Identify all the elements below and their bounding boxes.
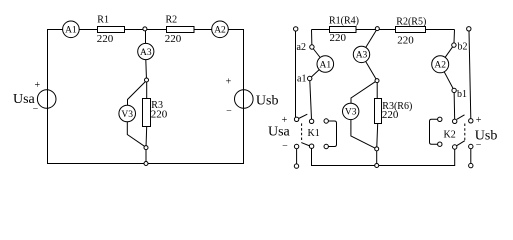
wire A2 to b1 slant [440,64,454,90]
ammeter A2 [212,21,229,38]
switch K1 jack bottom middle [309,144,313,148]
svg-text:220: 220 [151,109,168,121]
source Usb circle [235,90,254,109]
svg-text:A1: A1 [319,60,331,70]
switch K1 jack top middle [309,119,313,123]
switch K2 jack plus [469,119,473,123]
switch K1 blade top [299,114,308,118]
svg-text:−: − [33,104,39,115]
wire Usa plus feed [295,31,297,117]
node on bottom wire [144,162,148,166]
svg-text:V3: V3 [121,110,133,120]
resistor R1(R4) [330,27,357,33]
svg-text:A1: A1 [65,26,77,36]
svg-text:R2(R5): R2(R5) [396,16,426,27]
node V3-R3 join [144,146,148,150]
svg-text:A2: A2 [434,61,446,71]
node under A3 right [375,79,379,83]
resistor R3(R6) [375,99,382,124]
wire left circuit outer loop [48,30,244,164]
wire a1 down to K1 [310,79,312,122]
resistor R3 [143,99,151,127]
svg-text:220: 220 [330,32,347,44]
wire Usb minus stub [470,149,472,164]
terminal Usb minus bottom [469,163,473,167]
jack a1 [308,76,312,80]
svg-text:+: + [226,76,232,87]
wire node to V3 slant [128,81,147,106]
svg-text:Usa: Usa [268,124,291,139]
node bottom wire right [375,164,379,168]
ammeter A2 right [432,56,449,73]
node on top wire [375,27,379,31]
wire R3R6 to node [377,123,378,148]
svg-text:+: + [476,115,482,126]
svg-text:V3: V3 [345,108,357,118]
switch K2 jack bottom left [438,142,442,146]
source Usa circle [37,90,56,109]
wire node to A3 slant [362,29,378,55]
ammeter A3 right [353,46,369,62]
wire a2 to A1 slant [312,47,325,64]
svg-text:220: 220 [165,33,182,45]
svg-text:A2: A2 [214,26,226,36]
svg-text:Usb: Usb [256,94,279,109]
jack a2 [310,45,314,49]
wire V3 to node slant [351,120,377,149]
svg-text:220: 220 [97,33,114,45]
svg-text:R1(R4): R1(R4) [329,15,359,26]
ammeter A1 right [317,56,334,73]
node under A3 [145,78,149,82]
svg-text:220: 220 [397,34,414,46]
wire R3 bottom to node [145,126,148,147]
wire node to bottom [376,149,378,166]
ammeter A1 [63,21,80,38]
wire node to bottom wire [145,148,147,164]
wire A3 to node slant [362,54,378,80]
wire node to V3 slant [351,81,377,105]
switch K1 jack plus [294,117,298,121]
svg-text:a1: a1 [297,74,306,85]
node junction R1-R2 [143,27,147,31]
svg-text:R1: R1 [97,14,109,25]
switch K2 blade bottom [457,141,465,146]
jack b1 [452,88,456,92]
wire corner to jack a2 [311,30,313,48]
ammeter A3 [138,43,154,59]
wire b1 down to K2 [453,90,456,121]
wire node to R3R6 [376,81,378,99]
switch K1 jack bottom right [324,144,328,148]
svg-text:+: + [34,80,40,91]
switch K2 jack top middle [453,119,457,123]
svg-text:a2: a2 [297,42,306,53]
svg-text:K1: K1 [308,128,320,139]
jack b2 [452,43,456,47]
svg-text:K2: K2 [444,130,456,141]
svg-text:b1: b1 [457,89,467,100]
switch K1 jack minus [294,144,298,148]
svg-text:−: − [476,140,482,151]
wire Usb plus feed [469,31,471,119]
wire A3 to node [145,60,148,81]
svg-text:R2: R2 [166,14,178,25]
terminal Usb plus top [467,27,471,31]
wire corner to jack b2 [453,30,456,46]
resistor R2(R5) [396,27,426,33]
node V3-R3 join right [375,147,379,151]
svg-text:−: − [226,106,232,117]
switch K1 jack top right [324,119,328,123]
wire right circuit top [312,29,455,31]
terminal Usa minus bottom [294,164,298,168]
switch K2 short bracket [430,119,438,144]
wire Usa minus stub [296,149,298,164]
svg-text:A3: A3 [140,48,152,58]
resistor R2 [167,27,195,33]
switch K2 jack bottom middle [453,145,457,149]
svg-text:+: + [282,115,288,126]
wire A3 branch top [145,30,147,45]
switch K1 blade bottom [302,143,310,146]
switch K2 link dashed [464,124,466,141]
wire node to R3 top [146,81,148,100]
resistor R1 [98,27,125,33]
svg-text:−: − [282,141,288,152]
svg-text:A3: A3 [356,51,368,61]
switch K2 jack top left [438,117,442,121]
switch K1 link dashed [301,123,303,142]
wire right circuit bottom [312,148,455,165]
terminal top left feed [294,27,298,31]
switch K2 blade top [457,115,465,120]
wire b2 to A2 slant [440,45,454,64]
svg-text:b2: b2 [458,42,468,53]
svg-text:220: 220 [382,109,399,121]
voltmeter V3 right [343,103,359,119]
wire A1 to a1 slant [310,64,326,79]
wire V3 bottom slant to node [127,122,146,148]
voltmeter V3 [119,105,136,122]
switch K2 jack minus [469,144,473,148]
switch K1 short bracket [328,121,336,147]
